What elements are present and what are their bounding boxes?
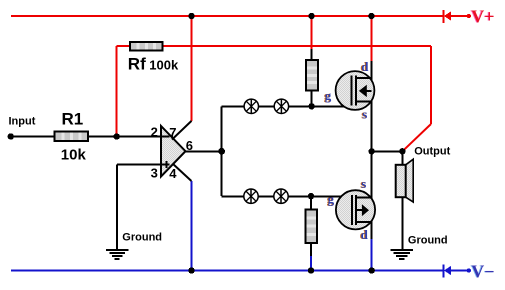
svg-text:d: d (361, 227, 369, 242)
svg-text:s: s (362, 106, 367, 121)
svg-text:Input: Input (9, 115, 36, 127)
svg-text:Output: Output (414, 145, 450, 157)
svg-text:Ground: Ground (408, 234, 448, 246)
svg-text:Rf: Rf (128, 55, 146, 74)
svg-text:2: 2 (151, 125, 158, 140)
svg-text:g: g (328, 192, 335, 207)
svg-text:V−: V− (471, 262, 494, 282)
svg-text:Ground: Ground (122, 231, 162, 243)
svg-text:d: d (361, 59, 369, 74)
svg-text:3: 3 (151, 166, 158, 181)
svg-text:6: 6 (186, 138, 193, 153)
svg-text:100k: 100k (149, 58, 179, 73)
svg-text:7: 7 (169, 125, 176, 140)
svg-text:4: 4 (169, 166, 177, 181)
svg-text:10k: 10k (61, 146, 87, 163)
svg-text:g: g (325, 88, 332, 103)
svg-text:V+: V+ (471, 7, 494, 27)
svg-text:s: s (361, 176, 366, 191)
svg-text:R1: R1 (62, 110, 84, 129)
